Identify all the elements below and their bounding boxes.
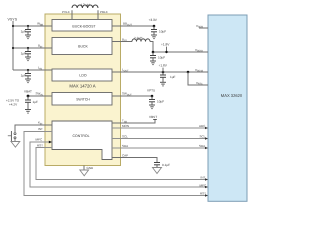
wire LDO out — [112, 71, 208, 74]
wire buck-boost PVLX pin up — [71, 10, 73, 19]
svg-text:MAX 14720 A: MAX 14720 A — [69, 83, 95, 88]
pin stub VRTC — [196, 81, 208, 86]
pin stub VDD18 — [195, 68, 208, 73]
capacitor C3 1uF — [21, 70, 31, 79]
svg-text:VRTC: VRTC — [196, 81, 203, 86]
svg-text:INT: INT — [201, 175, 206, 179]
pin stub VDDB — [196, 24, 208, 29]
svg-text:SWITCH: SWITCH — [76, 97, 90, 101]
svg-text:1µF: 1µF — [21, 30, 27, 34]
svg-text:LIN: LIN — [38, 66, 42, 71]
inductor L1 4.7uH (buck-boost) — [72, 3, 98, 8]
wire SDA — [112, 144, 208, 149]
svg-text:1µF: 1µF — [21, 74, 27, 78]
svg-text:SWIN: SWIN — [36, 92, 43, 97]
svg-text:BBOUT: BBOUT — [123, 22, 132, 27]
wire TSB to VBST tap — [112, 115, 157, 123]
svg-text:INT: INT — [38, 127, 43, 131]
svg-text:KIN: KIN — [38, 121, 43, 126]
wire CAP to capacitor — [112, 158, 157, 163]
ground C3 — [25, 79, 31, 83]
pushbutton S1 — [8, 131, 16, 142]
svg-text:2.2µH: 2.2µH — [134, 36, 142, 40]
node VSYS supply — [8, 18, 18, 71]
svg-text:MPC: MPC — [36, 138, 44, 142]
svg-text:MON: MON — [122, 124, 129, 128]
wire VRTC branch — [188, 72, 208, 85]
svg-text:VPTS: VPTS — [147, 89, 155, 93]
ground C8 — [149, 105, 155, 109]
LDO block — [52, 69, 112, 81]
ground C4 — [25, 110, 31, 114]
svg-text:+1.8V: +1.8V — [161, 43, 170, 47]
svg-text:10µF: 10µF — [158, 55, 165, 59]
wire MPC routed to MCU — [30, 141, 208, 189]
svg-text:+3.3V: +3.3V — [149, 18, 158, 22]
buck-boost block — [52, 20, 112, 32]
wire SCL — [112, 134, 208, 139]
svg-text:VBST: VBST — [149, 115, 157, 119]
ground C6 — [150, 61, 156, 65]
svg-text:BUCK-BOOST: BUCK-BOOST — [72, 24, 96, 28]
svg-text:SCL: SCL — [122, 134, 128, 138]
pin GND stub — [84, 166, 94, 171]
svg-text:MPC: MPC — [200, 184, 208, 188]
svg-text:VDDB: VDDB — [196, 24, 203, 29]
ground symbol (open triangle) under GND — [80, 170, 89, 176]
svg-text:MAX 32620: MAX 32620 — [221, 93, 243, 98]
svg-text:+4.2V: +4.2V — [9, 102, 18, 106]
svg-text:RST: RST — [37, 143, 43, 147]
svg-text:VSYS: VSYS — [8, 18, 18, 22]
wire RST routed to MCU — [36, 148, 208, 181]
svg-text:10µF: 10µF — [157, 100, 164, 104]
ground under pushbutton (open triangle) — [11, 142, 20, 148]
control block — [52, 121, 112, 160]
svg-text:SCL: SCL — [200, 134, 206, 138]
ground C2 — [25, 57, 31, 61]
wire VSYS to INBB — [12, 25, 52, 27]
capacitor C2 1uF — [21, 48, 31, 57]
svg-text:CAP: CAP — [122, 153, 128, 157]
svg-text:PBLX: PBLX — [100, 10, 108, 14]
wire buck-boost PBLX pin up — [97, 10, 99, 19]
svg-text:VDD18: VDD18 — [195, 68, 204, 73]
wire KIN to pushbutton — [15, 125, 52, 132]
svg-text:LDO: LDO — [79, 74, 86, 78]
capacitor C9 0.1uF — [154, 163, 170, 168]
capacitor C8 10uF — [149, 96, 164, 105]
svg-text:RST: RST — [200, 192, 206, 196]
IC U2 MAX32620 MCU body — [208, 15, 247, 201]
wire VSYS to BIN — [12, 47, 52, 49]
capacitor C1 1uF — [21, 26, 31, 35]
IC U1 MAX14720 PMIC body — [45, 14, 121, 166]
svg-text:BIN: BIN — [38, 44, 43, 49]
svg-text:1µF: 1µF — [170, 75, 176, 79]
svg-text:CONTROL: CONTROL — [72, 134, 89, 138]
net label +1.8V with tap — [161, 43, 170, 54]
svg-text:VBAT: VBAT — [24, 90, 32, 94]
capacitor C7 1uF — [160, 72, 176, 82]
wire switch out — [112, 95, 153, 98]
ground C9 (open triangle) — [153, 168, 162, 174]
capacitor C5 10uF — [151, 26, 166, 35]
wire VSYS to LIN — [13, 69, 52, 71]
battery voltage label — [6, 98, 20, 106]
svg-text:ADC: ADC — [199, 124, 206, 128]
svg-text:VDDIO: VDDIO — [195, 48, 203, 53]
pin stub VDDIO — [195, 48, 208, 53]
svg-text:1µF: 1µF — [33, 100, 39, 104]
wire MON to ADC — [112, 124, 208, 129]
svg-text:4.7 µH: 4.7 µH — [80, 3, 90, 7]
inductor L2 2.2uH (buck) — [112, 36, 150, 41]
ground C5 — [151, 35, 157, 39]
wire BBOUT to +3.3V node — [112, 25, 155, 28]
svg-text:PVLX: PVLX — [62, 10, 70, 14]
wire buck LX to +1.8V rail — [150, 42, 208, 54]
ground C7 — [160, 82, 166, 86]
svg-text:BUCK: BUCK — [78, 44, 88, 48]
svg-text:+1.8V: +1.8V — [159, 64, 168, 68]
wire INT routed to MCU — [24, 132, 208, 197]
svg-text:10µF: 10µF — [159, 30, 166, 34]
svg-text:SDA: SDA — [122, 144, 128, 148]
node VBAT — [24, 90, 52, 98]
capacitor C6 10uF — [150, 52, 165, 61]
buck block — [52, 38, 112, 55]
svg-text:GND: GND — [87, 166, 95, 170]
svg-text:0.1µF: 0.1µF — [162, 163, 170, 167]
capacitor C4 1uF — [25, 96, 38, 110]
svg-text:INBB: INBB — [37, 22, 44, 27]
switch block — [52, 93, 112, 106]
svg-text:1µF: 1µF — [21, 52, 27, 56]
net label +1.8V (LDO) — [159, 64, 168, 72]
svg-text:SDA: SDA — [199, 144, 205, 148]
ground C1 — [25, 35, 31, 39]
